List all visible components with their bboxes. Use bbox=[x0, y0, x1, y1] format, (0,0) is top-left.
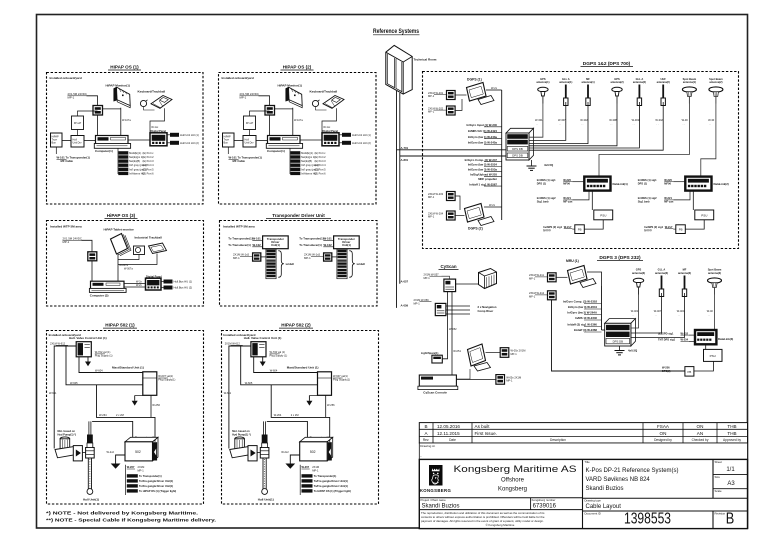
signal rows lower bbox=[465, 158, 502, 187]
DGPS2 connector b bbox=[428, 211, 455, 220]
svg-text:PB: PB bbox=[688, 370, 692, 374]
svg-text:1/1: 1/1 bbox=[726, 467, 735, 473]
svg-text:In/Gyro (bw 2) W-245a: In/Gyro (bw 2) W-245a bbox=[468, 141, 498, 145]
svg-text:antenna(2): antenna(2) bbox=[657, 80, 670, 84]
DGPS (1) receiver bbox=[467, 83, 495, 105]
revision cell bbox=[715, 511, 735, 528]
wires receiver1 bbox=[455, 94, 466, 96]
revision row B bbox=[424, 424, 736, 429]
svg-text:In/Gyro Comp. (3) W-2302: In/Gyro Comp. (3) W-2302 bbox=[563, 300, 597, 304]
JB box bbox=[444, 279, 456, 292]
svg-text:MP-1: MP-1 bbox=[424, 276, 431, 280]
antenna Spot Beam(1) bbox=[599, 77, 697, 177]
svg-text:W-40A: W-40A bbox=[677, 309, 685, 313]
svg-text:In/Gyro (bw 3) W-264A: In/Gyro (bw 3) W-264A bbox=[567, 311, 597, 315]
wires computer-panel bbox=[124, 283, 146, 285]
svg-text:12.11.2015: 12.11.2015 bbox=[437, 431, 460, 436]
sheet / size / scale cells bbox=[715, 460, 736, 493]
transponder driver assembly 1 bbox=[228, 236, 294, 279]
power label W-057 bbox=[424, 272, 450, 279]
svg-text:MF: MF bbox=[586, 77, 590, 81]
svg-text:Technical Room: Technical Room bbox=[414, 58, 437, 62]
svg-text:DGPS (1): DGPS (1) bbox=[467, 78, 482, 82]
svg-text:DPS DB: DPS DB bbox=[512, 147, 523, 151]
signal bus DGPS1 bbox=[501, 90, 503, 220]
svg-text:W-301: W-301 bbox=[535, 118, 543, 122]
svg-text:. .: . . bbox=[536, 123, 538, 126]
svg-text:Transponder Driver Unit: Transponder Driver Unit bbox=[272, 213, 325, 218]
svg-text:Drawing id.: Drawing id. bbox=[420, 444, 435, 448]
wire keyboard to console bbox=[456, 369, 470, 379]
svg-text:AN: AN bbox=[697, 431, 703, 436]
svg-text:B: B bbox=[424, 424, 427, 429]
svg-text:2X1M W-059: 2X1M W-059 bbox=[414, 298, 430, 302]
svg-text:payment of damages. All rights: payment of damages. All rights reserved … bbox=[421, 519, 544, 523]
svg-text:Cable Layout: Cable Layout bbox=[586, 504, 622, 510]
svg-text:B: B bbox=[726, 511, 735, 528]
svg-text:In/Sig/Upload W-255: In/Sig/Upload W-255 bbox=[470, 173, 497, 177]
dashed box HiPAP OS (1) bbox=[47, 73, 204, 205]
svg-text:In/MRU HU (1) W-2424: In/MRU HU (1) W-2424 bbox=[468, 129, 498, 133]
dashed box Transponder Driver Unit bbox=[220, 221, 378, 307]
svg-text:DPS(2): DPS(2) bbox=[662, 369, 671, 373]
svg-text:**) NOTE - Special Cable if Ko: **) NOTE - Special Cable if Kongsberg Ma… bbox=[46, 518, 216, 523]
svg-text:MDF propeller: MDF propeller bbox=[478, 177, 498, 181]
svg-text:antenna(2): antenna(2) bbox=[633, 80, 646, 84]
document id cell bbox=[585, 511, 672, 528]
antenna GPS(2) bbox=[529, 77, 624, 146]
svg-text:. .: . . bbox=[633, 123, 635, 126]
svg-text:W-007a: W-007a bbox=[124, 268, 133, 271]
MRU unit bbox=[568, 266, 597, 288]
panel out cables bbox=[161, 280, 192, 290]
DGPS1 connector a bbox=[428, 91, 455, 100]
drawing type cell bbox=[585, 499, 622, 511]
wire monitor to connector bbox=[486, 352, 501, 354]
antenna MF(1) bbox=[529, 77, 595, 144]
svg-text:W-05x 2X1M: W-05x 2X1M bbox=[511, 348, 526, 352]
svg-text:2X1M W-202: 2X1M W-202 bbox=[428, 106, 444, 110]
svg-text:W-40: W-40 bbox=[707, 309, 714, 313]
dashed box HiPAP OS (3) bbox=[47, 221, 204, 307]
svg-text:Sheet: Sheet bbox=[715, 460, 723, 464]
CyScan laser sensor bbox=[479, 269, 497, 289]
svg-text:W-256: W-256 bbox=[662, 365, 670, 369]
svg-text:GLL A: GLL A bbox=[658, 268, 666, 272]
svg-text:HiPAP 502 (2): HiPAP 502 (2) bbox=[281, 323, 311, 328]
svg-text:antenna(3): antenna(3) bbox=[655, 271, 668, 275]
project / plant row bbox=[421, 498, 557, 510]
svg-text:MP-1: MP-1 bbox=[529, 295, 536, 299]
SECTION PLACEHOLDERS bbox=[47, 65, 204, 205]
svg-text:Document ID: Document ID bbox=[585, 512, 601, 516]
svg-text:antenna(1): antenna(1) bbox=[559, 80, 572, 84]
svg-text:VARD Søviknes NB 824: VARD Søviknes NB 824 bbox=[586, 477, 651, 483]
svg-text:. .: . . bbox=[708, 314, 710, 317]
svg-text:HiPAP 502 (1): HiPAP 502 (1) bbox=[105, 323, 135, 328]
svg-text:antenna(2): antenna(2) bbox=[610, 80, 623, 84]
legal text bbox=[421, 511, 545, 527]
svg-text:W-2x: W-2x bbox=[489, 203, 496, 207]
svg-text:2X1M W-203: 2X1M W-203 bbox=[428, 192, 444, 196]
PSU 3 bbox=[705, 344, 707, 349]
svg-text:Skandi Buzios: Skandi Buzios bbox=[422, 503, 460, 509]
svg-text:MF: MF bbox=[683, 268, 687, 272]
svg-text:DataLink(1): DataLink(1) bbox=[613, 182, 628, 186]
svg-text:HiPAP OS (1): HiPAP OS (1) bbox=[110, 65, 139, 70]
svg-text:2X1M W-212: 2X1M W-212 bbox=[529, 291, 545, 295]
svg-text:Size: Size bbox=[715, 475, 721, 479]
computer (3) bbox=[89, 281, 126, 292]
svg-text:DPS DB: DPS DB bbox=[613, 340, 624, 344]
svg-text:GPS: GPS bbox=[636, 268, 642, 272]
svg-text:GLL A: GLL A bbox=[562, 77, 570, 81]
svg-text:A-057: A-057 bbox=[401, 280, 409, 284]
antenna GLL A(2) bbox=[529, 77, 646, 148]
svg-text:4x0.5Q: 4x0.5Q bbox=[628, 349, 638, 353]
svg-text:1398553: 1398553 bbox=[624, 511, 671, 528]
svg-text:A-701: A-701 bbox=[401, 146, 409, 150]
HiPAP OS (2) internals bbox=[222, 76, 371, 175]
svg-text:DataLink(2): DataLink(2) bbox=[714, 182, 729, 186]
svg-text:. .: . . bbox=[632, 314, 634, 317]
svg-text:THB: THB bbox=[727, 431, 736, 436]
svg-text:MP-1: MP-1 bbox=[428, 110, 435, 114]
svg-text:Hull.Bus HU (1): Hull.Bus HU (1) bbox=[174, 280, 193, 284]
svg-text:. .: . . bbox=[678, 314, 680, 317]
svg-text:In/Gyro (bw 3) W-2644: In/Gyro (bw 3) W-2644 bbox=[568, 305, 598, 309]
svg-text:Spot Beam: Spot Beam bbox=[708, 268, 722, 272]
svg-text:Title: Title bbox=[585, 460, 591, 464]
svg-text:K-Pos DP-21 Reference System(s: K-Pos DP-21 Reference System(s) bbox=[586, 468, 679, 474]
MRU connector b bbox=[529, 291, 556, 300]
svg-text:W-30: W-30 bbox=[682, 118, 689, 122]
svg-text:. .: . . bbox=[656, 123, 658, 126]
svg-text:6739016: 6739016 bbox=[533, 503, 557, 509]
cabinet riser wires bbox=[397, 91, 400, 308]
svg-text:MP-1: MP-1 bbox=[414, 301, 421, 305]
svg-text:Kongsberg Maritime AS: Kongsberg Maritime AS bbox=[454, 464, 577, 475]
svg-text:antenna(3): antenna(3) bbox=[708, 271, 721, 275]
svg-text:Spot Beam: Spot Beam bbox=[683, 77, 697, 81]
signal rows upper bbox=[466, 123, 501, 145]
svg-text:UHF: UHF bbox=[661, 77, 667, 81]
svg-text:Spot Beam: Spot Beam bbox=[709, 77, 723, 81]
wires MRU bbox=[556, 276, 567, 278]
dashed box HiPAP 502 (1) bbox=[47, 331, 204, 505]
svg-text:W-30M: W-30M bbox=[632, 118, 640, 122]
svg-text:In/Gyro (bw 1) W-243a: In/Gyro (bw 1) W-243a bbox=[468, 135, 498, 139]
antenna Spot Beam(2) bbox=[701, 77, 724, 177]
svg-text:TNT DPS sig1: TNT DPS sig1 bbox=[658, 338, 676, 342]
svg-text:W-254: W-254 bbox=[681, 338, 689, 342]
svg-text:Project / Plant name: Project / Plant name bbox=[421, 498, 447, 502]
svg-text:W-407: W-407 bbox=[654, 309, 662, 313]
svg-text:In/daff (3) sig1 W-2360: In/daff (3) sig1 W-2360 bbox=[568, 323, 598, 327]
svg-text:W-252: W-252 bbox=[681, 331, 689, 335]
wire JB to sensor bbox=[456, 283, 479, 285]
svg-text:MB/DB-1: MB/DB-1 bbox=[512, 135, 524, 139]
svg-text:ON: ON bbox=[697, 424, 704, 429]
svg-text:antenna(1): antenna(1) bbox=[683, 80, 696, 84]
svg-text:W-2x6: W-2x6 bbox=[164, 281, 172, 284]
antenna GLL A(3) bbox=[631, 268, 668, 333]
svg-text:Kongsberg: Kongsberg bbox=[498, 487, 527, 493]
antenna MF(3) bbox=[631, 268, 691, 338]
digital panel bbox=[146, 278, 162, 290]
cyscan console bbox=[418, 375, 458, 390]
svg-text:HiPAP OS (3): HiPAP OS (3) bbox=[107, 213, 136, 218]
HiPAP 502 (2) internals bbox=[223, 333, 351, 501]
svg-text:DGPS 3 (DPS 232): DGPS 3 (DPS 232) bbox=[599, 255, 641, 261]
svg-text:Kongsberg number: Kongsberg number bbox=[532, 498, 556, 502]
svg-text:Checked by: Checked by bbox=[692, 438, 709, 442]
svg-text:MP-1: MP-1 bbox=[511, 352, 518, 356]
svg-text:Installed WTP 5M area: Installed WTP 5M area bbox=[50, 225, 82, 229]
svg-text:. .: . . bbox=[559, 123, 561, 126]
svg-text:CyScan Console: CyScan Console bbox=[423, 391, 447, 395]
nav riser wires bbox=[446, 306, 470, 314]
svg-text:Designed by: Designed by bbox=[654, 438, 672, 442]
signal bus DGPS3 bbox=[601, 286, 603, 330]
ground stack 3 bbox=[615, 346, 638, 355]
long riser connector b to PB bbox=[552, 300, 685, 371]
nav distribution box bbox=[435, 303, 446, 315]
svg-text:Hull.Bus HU (2): Hull.Bus HU (2) bbox=[174, 286, 193, 290]
svg-text:2X1M W-057: 2X1M W-057 bbox=[424, 272, 440, 276]
svg-text:Offshore: Offshore bbox=[501, 478, 525, 484]
PB 3 bbox=[685, 367, 694, 377]
svg-text:Scale: Scale bbox=[715, 489, 722, 493]
svg-text:W-30A: W-30A bbox=[580, 118, 588, 122]
wire keyboard bbox=[118, 254, 157, 265]
svg-text:2X1M W-211: 2X1M W-211 bbox=[529, 273, 544, 277]
dashed box DGPS 1&2 bbox=[423, 72, 739, 249]
revision table bbox=[419, 423, 747, 443]
svg-text:W-307: W-307 bbox=[558, 118, 566, 122]
svg-text:GPS: GPS bbox=[540, 77, 546, 81]
svg-text:12.05.2016: 12.05.2016 bbox=[437, 424, 460, 429]
svg-text:. .: . . bbox=[655, 314, 657, 317]
svg-text:W-2x: W-2x bbox=[491, 86, 498, 90]
svg-text:Date: Date bbox=[449, 438, 456, 442]
svg-text:In/Gyro Input (1) W-240: In/Gyro Input (1) W-240 bbox=[466, 123, 497, 127]
antenna GPS(1) bbox=[529, 77, 550, 137]
antenna UHF(2) bbox=[529, 77, 670, 150]
svg-text:Comp Riser: Comp Riser bbox=[478, 309, 495, 313]
wire JB down to light bbox=[442, 292, 447, 359]
svg-text:DPS DB: DPS DB bbox=[613, 333, 624, 337]
svg-text:MRU (1): MRU (1) bbox=[566, 259, 579, 263]
svg-text:W-30A: W-30A bbox=[655, 118, 663, 122]
svg-text:MP-1: MP-1 bbox=[428, 94, 435, 98]
DGPS (2) receiver bbox=[465, 204, 495, 226]
wire power to connector bbox=[82, 240, 93, 252]
cyscan monitor bbox=[468, 344, 486, 366]
monitor connectors bbox=[500, 348, 525, 358]
svg-text:2X1M W-201: 2X1M W-201 bbox=[428, 91, 444, 95]
svg-text:antenna(1): antenna(1) bbox=[581, 80, 594, 84]
svg-text:GPS: GPS bbox=[614, 77, 620, 81]
svg-text:antenna(3): antenna(3) bbox=[632, 271, 645, 275]
svg-text:MB/DB-3: MB/DB-3 bbox=[612, 326, 624, 330]
antenna GPS(3) bbox=[631, 268, 645, 328]
datalink 3 inputs bbox=[658, 331, 689, 341]
svg-text:Skandi Buzios: Skandi Buzios bbox=[586, 486, 624, 492]
title cell bbox=[585, 460, 679, 492]
datalink 3 control unit bbox=[695, 330, 716, 344]
svg-text:CyScan: CyScan bbox=[440, 264, 456, 269]
MRU connector a bbox=[529, 273, 556, 282]
trackball unit bbox=[134, 246, 145, 255]
svg-text:FSAA: FSAA bbox=[657, 424, 670, 429]
svg-text:W-30: W-30 bbox=[708, 118, 715, 122]
junction stack MB/DB bbox=[506, 128, 534, 160]
svg-text:antenna(2): antenna(2) bbox=[709, 80, 722, 84]
antenna GLL A(1) bbox=[529, 77, 572, 141]
tablet monitor tilted bbox=[111, 234, 132, 256]
cyscan keyboard bbox=[474, 363, 491, 372]
svg-text:Computer (3): Computer (3) bbox=[90, 294, 109, 298]
wire console to connector bbox=[456, 379, 496, 381]
wire JB down to console bbox=[451, 292, 453, 375]
svg-text:antenna(1): antenna(1) bbox=[536, 80, 549, 84]
svg-text:. .: . . bbox=[683, 123, 685, 126]
wire monitor stem bbox=[117, 254, 119, 281]
svg-text:Industrial Trackball: Industrial Trackball bbox=[135, 236, 163, 240]
svg-text:In/Gyro (bw 3) W-253a: In/Gyro (bw 3) W-253a bbox=[468, 168, 498, 172]
svg-text:W-30B: W-30B bbox=[609, 118, 617, 122]
svg-text:KONGSBERG: KONGSBERG bbox=[420, 488, 452, 493]
svg-text:DGPS 1&2 (DPS 700): DGPS 1&2 (DPS 700) bbox=[583, 61, 631, 67]
svg-text:A-801: A-801 bbox=[401, 158, 409, 162]
svg-text:. .: . . bbox=[709, 123, 711, 126]
svg-text:In/Gyro (bw 2) W-2524: In/Gyro (bw 2) W-2524 bbox=[468, 163, 498, 167]
svg-text:(E)/SPD sig1: (E)/SPD sig1 bbox=[658, 331, 674, 335]
svg-text:ON: ON bbox=[660, 431, 667, 436]
svg-text:LandLink: LandLink bbox=[700, 332, 711, 336]
power label W-059 bbox=[414, 298, 432, 305]
svg-text:A-059: A-059 bbox=[401, 304, 409, 308]
drawing title: Reference Systems bbox=[373, 29, 420, 35]
title block frame bbox=[419, 459, 747, 528]
svg-text:DataLink(3): DataLink(3) bbox=[718, 337, 733, 341]
svg-text:MP-1: MP-1 bbox=[428, 215, 435, 219]
svg-text:Rev.: Rev. bbox=[423, 438, 429, 442]
keyboard bbox=[149, 243, 167, 254]
company name bbox=[454, 464, 577, 493]
datalink assembly 1 bbox=[537, 177, 613, 234]
svg-text:In/daff 1 sig1 W-2567: In/daff 1 sig1 W-2567 bbox=[469, 182, 497, 186]
svg-text:W-051: W-051 bbox=[453, 349, 461, 353]
svg-text:Revision: Revision bbox=[715, 512, 726, 516]
svg-text:Approved by: Approved by bbox=[723, 438, 741, 442]
svg-text:Installed WTP 5M area: Installed WTP 5M area bbox=[223, 225, 255, 229]
DGPS2 connector a bbox=[428, 192, 455, 201]
svg-text:THB: THB bbox=[727, 424, 736, 429]
svg-text:Drawing type: Drawing type bbox=[585, 499, 602, 503]
svg-text:In/Gyro Comp. (2) W-247: In/Gyro Comp. (2) W-247 bbox=[465, 158, 498, 162]
svg-text:4x0.5Q: 4x0.5Q bbox=[544, 163, 554, 167]
antenna Spot Beam(3) bbox=[707, 268, 722, 330]
svg-text:MP-1: MP-1 bbox=[428, 195, 435, 199]
wire A-701 to junction bbox=[397, 149, 506, 151]
signal rows DGPS3 bbox=[563, 300, 601, 333]
svg-text:© Kongsberg Maritime: © Kongsberg Maritime bbox=[486, 523, 515, 527]
svg-text:DPS DB: DPS DB bbox=[512, 154, 523, 158]
wire trackball bbox=[118, 255, 139, 260]
svg-text:Reference Systems: Reference Systems bbox=[373, 29, 420, 35]
svg-text:MP-1: MP-1 bbox=[63, 240, 70, 244]
svg-text:First Issue.: First Issue. bbox=[475, 431, 497, 436]
svg-text:DGPS (2): DGPS (2) bbox=[468, 226, 483, 230]
HiPAP OS (1) internals bbox=[50, 76, 199, 175]
svg-text:MP-1: MP-1 bbox=[506, 379, 513, 383]
svg-text:. .: . . bbox=[610, 123, 612, 126]
revision header row bbox=[423, 438, 742, 442]
svg-text:antenna(3): antenna(3) bbox=[678, 271, 691, 275]
DGPS1 connector b bbox=[428, 106, 455, 115]
svg-text:Light/Spare(1): Light/Spare(1) bbox=[421, 351, 439, 355]
transponder driver assembly 2 bbox=[299, 236, 365, 279]
light/spare unit bbox=[432, 355, 442, 363]
wire A-801 to junction bbox=[400, 155, 506, 157]
datalink assembly 2 bbox=[638, 177, 714, 234]
wires receiver2 bbox=[455, 196, 460, 210]
svg-text:HiPAP OS (2): HiPAP OS (2) bbox=[283, 65, 312, 70]
junction stack 3 bbox=[605, 319, 636, 346]
svg-text:W-2x: W-2x bbox=[136, 284, 143, 287]
power label bbox=[63, 237, 82, 245]
wire connector down bbox=[91, 261, 93, 281]
Kongsberg logo bbox=[420, 465, 452, 493]
ground stack bbox=[527, 160, 554, 170]
revision row A bbox=[424, 431, 736, 436]
svg-text:2X1M W-204: 2X1M W-204 bbox=[428, 211, 444, 215]
svg-text:W-05x 2X1M: W-05x 2X1M bbox=[506, 375, 521, 379]
svg-text:*) NOTE - Not delivered by Kon: *) NOTE - Not delivered by Kongsberg Mar… bbox=[46, 511, 198, 516]
svg-text:A3: A3 bbox=[727, 481, 735, 487]
dashed box HiPAP OS (2) bbox=[219, 73, 377, 205]
console connector bbox=[496, 375, 521, 385]
svg-text:MP-1: MP-1 bbox=[529, 277, 536, 281]
HiPAP 502 (1) internals bbox=[49, 333, 177, 501]
svg-text:GLL A: GLL A bbox=[636, 77, 644, 81]
svg-text:W-052: W-052 bbox=[449, 327, 457, 331]
svg-text:. .: . . bbox=[581, 123, 583, 126]
connector box bbox=[88, 252, 97, 261]
svg-text:W-2x8: W-2x8 bbox=[164, 287, 172, 290]
svg-text:W-401: W-401 bbox=[631, 309, 639, 313]
svg-text:In/MS 10 W-2346: In/MS 10 W-2346 bbox=[575, 316, 597, 320]
svg-text:PSU: PSU bbox=[710, 354, 716, 358]
svg-text:MB/DB-2: MB/DB-2 bbox=[512, 141, 524, 145]
drawing id band bbox=[419, 443, 747, 459]
svg-text:Description: Description bbox=[550, 438, 566, 442]
svg-text:HiPAP Tablet monitor: HiPAP Tablet monitor bbox=[104, 228, 135, 232]
svg-text:As built: As built bbox=[475, 424, 491, 429]
technical room cabinet bbox=[386, 45, 412, 94]
svg-text:In/daff (3) W-2368: In/daff (3) W-2368 bbox=[574, 328, 598, 332]
dashed box HiPAP 502 (2) bbox=[222, 331, 379, 505]
